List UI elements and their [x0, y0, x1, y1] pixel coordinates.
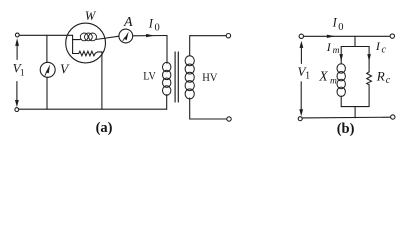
svg-text:W: W: [85, 9, 97, 23]
wire voltmeter branch upper: [46, 35, 48, 62]
wire top (b) with I0 arrow: [304, 35, 391, 38]
svg-text:1: 1: [20, 68, 25, 78]
terminal T5 top-left (b): [299, 34, 303, 38]
wire Rc to bottom bar: [368, 85, 370, 107]
terminal T4 HV bottom: [227, 117, 231, 121]
top bar of parallel branches: [341, 46, 369, 48]
right branch wire with Ic arrow: [367, 47, 371, 72]
svg-text:LV: LV: [143, 69, 156, 83]
svg-text:m: m: [330, 77, 337, 87]
terminal T3 HV top: [226, 34, 230, 38]
terminal T8 bottom-right (b): [391, 115, 395, 119]
svg-text:0: 0: [155, 23, 160, 34]
svg-text:m: m: [333, 46, 340, 56]
svg-text:1: 1: [305, 71, 310, 82]
LV winding: [163, 62, 171, 95]
wattmeter inner left wire: [72, 35, 74, 53]
svg-text:0: 0: [338, 22, 343, 33]
svg-text:I: I: [332, 16, 338, 30]
svg-text:c: c: [382, 44, 387, 55]
V1 arrow top (a): [15, 38, 19, 59]
wire top (a): [19, 34, 72, 36]
wire bottom (a): [19, 108, 167, 110]
wattmeter potential resistor: [73, 51, 102, 56]
svg-text:HV: HV: [202, 70, 217, 84]
V1 arrow bottom (a): [15, 82, 19, 108]
wattmeter current coil leads: [73, 36, 119, 39]
node stub from top wire: [354, 36, 356, 46]
svg-text:c: c: [386, 75, 391, 86]
svg-text:(b): (b): [337, 121, 355, 137]
svg-text:(a): (a): [96, 120, 113, 136]
node stub to bottom wire: [354, 107, 356, 118]
voltmeter V: [40, 62, 55, 77]
wattmeter W circle: [66, 23, 106, 63]
HV top lead: [190, 36, 227, 56]
transformer core: [175, 52, 178, 102]
bottom bar of parallel branches: [341, 106, 369, 108]
svg-text:X: X: [318, 68, 328, 83]
terminal T2 bottom-left (a): [15, 108, 19, 112]
terminal T7 top-right (b): [390, 34, 394, 38]
wire Xm to bottom bar: [340, 96, 342, 107]
wire down to LV winding: [166, 36, 168, 64]
wire ammeter to corner with I0 arrow: [133, 34, 167, 37]
inductor Xm: [337, 64, 345, 97]
ammeter A: [119, 29, 133, 43]
wattmeter current coil: [80, 33, 96, 41]
svg-text:R: R: [376, 68, 385, 83]
svg-text:I: I: [148, 17, 154, 31]
HV bottom lead: [190, 98, 227, 119]
V1 arrow top (b): [300, 41, 304, 64]
V1 arrow bottom (b): [299, 82, 303, 117]
wire LV to bottom: [166, 95, 168, 110]
resistor Rc: [367, 72, 372, 85]
svg-text:A: A: [123, 15, 133, 30]
wire voltmeter branch lower: [46, 77, 48, 109]
HV winding: [185, 56, 194, 99]
left branch wire with Im arrow: [339, 47, 343, 64]
terminal T1 top-left (a): [15, 33, 19, 37]
wire bottom (b): [302, 116, 390, 119]
terminal T6 bottom-left (b): [298, 117, 302, 121]
wattmeter potential lead down: [101, 52, 103, 109]
